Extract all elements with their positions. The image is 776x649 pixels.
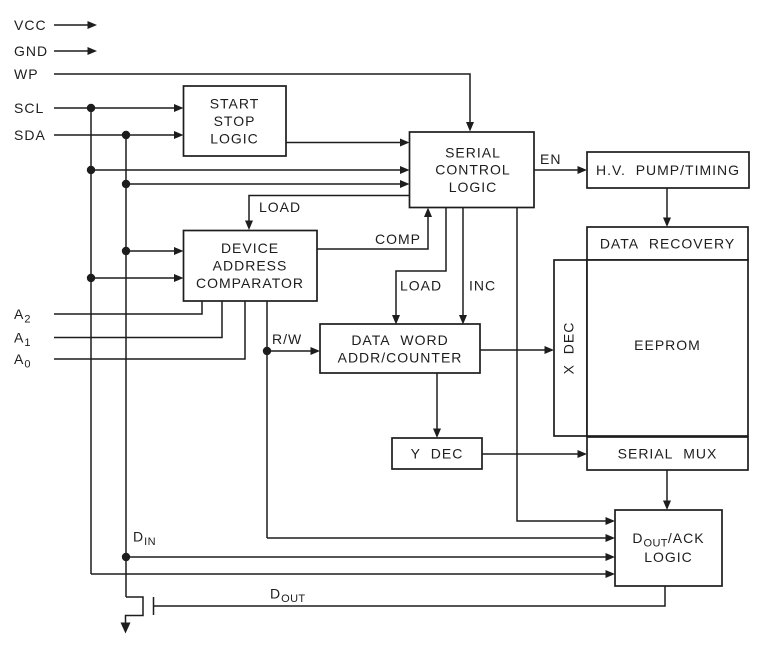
- svg-text:DOUT: DOUT: [270, 586, 306, 606]
- svg-text:SCL: SCL: [14, 100, 44, 116]
- junction D_IN: [122, 553, 130, 561]
- block H.V. PUMP/TIMING: [587, 152, 749, 188]
- svg-text:EEPROM: EEPROM: [634, 337, 701, 353]
- block DOUT/ACK LOGIC: [615, 510, 722, 586]
- wire Y DEC to SERIAL MUX: [482, 450, 587, 458]
- block DATA RECOVERY: [587, 227, 748, 260]
- label LOAD: [259, 199, 301, 215]
- wire SERIAL CONTROL LOGIC to DOUT/ACK LOGIC: [517, 208, 615, 526]
- wire SDA to SERIAL CONTROL LOGIC: [126, 180, 410, 188]
- svg-text:DEVICE: DEVICE: [221, 240, 279, 256]
- wire VCC: [54, 21, 97, 29]
- pin label WP: [14, 66, 39, 82]
- wire A1 to comparator: [54, 301, 222, 338]
- svg-text:R/W: R/W: [272, 331, 302, 347]
- wire SCL to SERIAL CONTROL LOGIC: [91, 166, 410, 174]
- svg-text:SDA: SDA: [14, 127, 46, 143]
- svg-text:WP: WP: [14, 66, 39, 82]
- label D_OUT: [270, 586, 306, 606]
- wire SERIAL MUX to DOUT/ACK LOGIC: [663, 470, 671, 510]
- label EN: [540, 151, 561, 167]
- wire D_OUT from DOUT/ACK LOGIC to output transistor gate: [154, 586, 666, 606]
- pin label GND: [14, 43, 48, 59]
- wire DATA WORD to Y DEC: [433, 373, 441, 438]
- svg-text:CONTROL: CONTROL: [435, 162, 510, 178]
- wire SDA to START STOP LOGIC: [54, 131, 184, 139]
- svg-text:SERIAL MUX: SERIAL MUX: [618, 446, 718, 462]
- block Y DEC: [392, 438, 482, 469]
- wire LOAD to DATA WORD ADDR/COUNTER: [392, 208, 446, 325]
- svg-text:INC: INC: [469, 278, 496, 294]
- junction SDA to serial control: [122, 180, 130, 188]
- pin label SDA: [14, 127, 46, 143]
- pin label A1: [14, 330, 31, 350]
- wire GND: [54, 47, 97, 55]
- label R/W: [272, 331, 302, 347]
- svg-text:COMPARATOR: COMPARATOR: [196, 275, 304, 291]
- svg-text:LOAD: LOAD: [400, 278, 442, 294]
- block START STOP LOGIC: [184, 86, 287, 156]
- svg-text:A0: A0: [14, 351, 31, 371]
- svg-text:A2: A2: [14, 306, 31, 326]
- bus SCL vertical: [90, 108, 92, 574]
- svg-text:Y DEC: Y DEC: [411, 446, 464, 462]
- svg-text:EN: EN: [540, 151, 561, 167]
- junction R/W: [263, 347, 271, 355]
- svg-text:DATA RECOVERY: DATA RECOVERY: [600, 236, 735, 252]
- svg-text:LOGIC: LOGIC: [449, 179, 498, 195]
- wire EN: [534, 166, 587, 174]
- wire INC to DATA WORD ADDR/COUNTER: [459, 208, 467, 325]
- output transistor gate bar: [153, 597, 155, 615]
- output transistor body: [126, 597, 144, 624]
- svg-text:X DEC: X DEC: [561, 322, 577, 375]
- wire DATA WORD to X DEC: [480, 346, 554, 354]
- junction SCL bus: [87, 104, 95, 112]
- wire START STOP LOGIC to SERIAL CONTROL LOGIC: [286, 139, 410, 147]
- svg-text:H.V. PUMP/TIMING: H.V. PUMP/TIMING: [596, 162, 740, 178]
- wire R/W to DOUT/ACK LOGIC: [267, 534, 615, 542]
- junction SDA to comparator: [122, 247, 130, 255]
- block DATA WORD ADDR/COUNTER: [320, 324, 480, 373]
- block X DEC: [554, 260, 587, 436]
- label INC: [469, 278, 496, 294]
- pin label A2: [14, 306, 31, 326]
- junction SDA bus: [122, 131, 130, 139]
- wire R/W vertical from comparator: [266, 301, 268, 538]
- block EEPROM: [587, 260, 748, 436]
- block DEVICE ADDRESS COMPARATOR: [184, 231, 318, 302]
- svg-text:START: START: [210, 96, 260, 112]
- pin label A0: [14, 351, 31, 371]
- wire R/W to DATA WORD ADDR/COUNTER: [267, 347, 320, 355]
- svg-text:SERIAL: SERIAL: [445, 145, 501, 161]
- junction SCL to serial control: [87, 166, 95, 174]
- label COMP: [375, 231, 421, 247]
- label LOAD (lower): [400, 278, 442, 294]
- bus SDA vertical: [125, 135, 127, 597]
- svg-text:DIN: DIN: [133, 529, 156, 549]
- svg-text:LOAD: LOAD: [259, 199, 301, 215]
- block SERIAL CONTROL LOGIC: [410, 132, 535, 208]
- block SERIAL MUX: [587, 437, 748, 470]
- SDA output arrow: [121, 623, 131, 634]
- svg-text:GND: GND: [14, 43, 48, 59]
- wire D_IN to DOUT/ACK LOGIC: [126, 553, 615, 561]
- svg-text:LOGIC: LOGIC: [210, 131, 259, 147]
- wire COMP from comparator to SERIAL CONTROL LOGIC: [317, 208, 432, 250]
- wire WP to SERIAL CONTROL LOGIC top: [54, 74, 474, 132]
- svg-text:LOGIC: LOGIC: [644, 549, 693, 565]
- pin label VCC: [14, 17, 47, 33]
- pin label SCL: [14, 100, 44, 116]
- svg-text:ADDRESS: ADDRESS: [213, 258, 288, 274]
- label D_IN: [133, 529, 156, 549]
- wire A2 to comparator: [54, 301, 202, 314]
- svg-text:ADDR/COUNTER: ADDR/COUNTER: [338, 350, 463, 366]
- svg-text:STOP: STOP: [214, 113, 256, 129]
- wire A0 to comparator: [54, 301, 245, 359]
- wire SCL to DEVICE ADDRESS COMPARATOR: [91, 274, 184, 282]
- wire H.V. PUMP to DATA RECOVERY: [663, 188, 671, 227]
- svg-text:COMP: COMP: [375, 231, 421, 247]
- svg-text:A1: A1: [14, 330, 31, 350]
- wire SCL to START STOP LOGIC: [54, 104, 184, 112]
- junction SCL to comparator: [87, 274, 95, 282]
- svg-text:VCC: VCC: [14, 17, 47, 33]
- svg-text:DATA WORD: DATA WORD: [351, 332, 448, 348]
- wire LOAD to DEVICE ADDRESS COMPARATOR: [245, 196, 410, 231]
- wire SCL to DOUT/ACK LOGIC: [91, 570, 615, 578]
- wire SDA to DEVICE ADDRESS COMPARATOR: [126, 247, 184, 255]
